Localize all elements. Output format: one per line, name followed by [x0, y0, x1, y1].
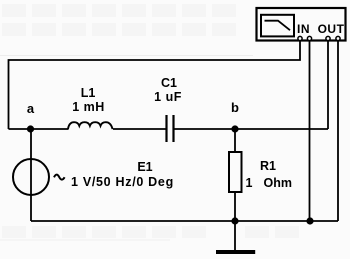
svg-text:1 V/50 Hz/0 Deg: 1 V/50 Hz/0 Deg: [71, 175, 174, 189]
svg-text:IN: IN: [297, 22, 310, 36]
svg-text:1: 1: [246, 176, 253, 190]
wire OUT+ vertical: [327, 41, 329, 129]
svg-text:b: b: [231, 100, 239, 115]
Bode plotter response curve: [265, 21, 291, 31]
svg-text:L1: L1: [81, 86, 96, 100]
capacitor C1: [167, 115, 174, 142]
wire top (node a to Bode plotter IN+): [9, 41, 301, 129]
node a: [27, 125, 34, 132]
ground: [234, 221, 236, 251]
wire source vertical (node a to bottom rail): [30, 129, 32, 221]
svg-text:OUT: OUT: [318, 22, 345, 36]
junction ground node: [231, 217, 238, 224]
faint scan artifacts (top strip): [2, 4, 236, 36]
pin IN+: [298, 36, 302, 40]
svg-text:1 uF: 1 uF: [154, 90, 182, 104]
pin OUT-: [336, 36, 340, 40]
wire resistor bottom to rail: [234, 192, 236, 221]
faint scan line bottom: [0, 239, 170, 241]
svg-text:1 mH: 1 mH: [72, 100, 105, 114]
svg-text:Ohm: Ohm: [264, 176, 292, 190]
source E1 circle: [13, 159, 49, 195]
wire main horizontal left segment (left corner to inductor): [9, 128, 69, 130]
wire node b to resistor top: [234, 129, 236, 152]
junction IN- node: [306, 217, 313, 224]
node b: [231, 125, 238, 132]
wire IN- vertical: [309, 41, 311, 221]
svg-text:R1: R1: [260, 159, 276, 173]
wire capacitor to OUT+ riser: [175, 128, 329, 130]
svg-text:E1: E1: [137, 160, 152, 174]
Bode plotter body: [257, 8, 346, 41]
wire bottom rail: [31, 220, 338, 222]
wire OUT- vertical: [337, 41, 339, 221]
pin IN-: [307, 36, 311, 40]
source E1 tilde: [54, 175, 65, 180]
wire inductor to capacitor: [113, 128, 166, 130]
svg-text:C1: C1: [161, 76, 177, 90]
resistor R1: [229, 152, 242, 192]
faint scan line: [0, 55, 253, 57]
faint scan artifacts (bottom strip): [2, 226, 299, 238]
Bode plotter screen: [261, 15, 294, 37]
pin OUT+: [326, 36, 330, 40]
inductor L1: [68, 122, 113, 129]
svg-text:a: a: [27, 101, 35, 116]
